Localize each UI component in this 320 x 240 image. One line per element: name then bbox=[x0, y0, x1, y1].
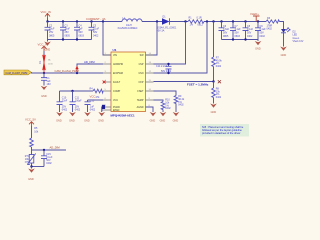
ground GND (C1) bbox=[41, 86, 48, 98]
svg-text:GND: GND bbox=[255, 48, 261, 51]
svg-text:0402: 0402 bbox=[90, 108, 96, 111]
svg-text:VIN: VIN bbox=[113, 54, 117, 57]
svg-text:3.3uF: 3.3uF bbox=[223, 28, 230, 31]
ground GND (TEMP) bbox=[160, 112, 167, 122]
svg-text:GND: GND bbox=[45, 49, 51, 52]
capacitor C4 bbox=[74, 22, 84, 40]
power port VCC_IN (top-left) bbox=[41, 10, 51, 21]
svg-text:ADIM/HD: ADIM/HD bbox=[113, 63, 123, 66]
wire EN/PWM net bbox=[32, 71, 104, 74]
ground GND (C10) bbox=[56, 112, 63, 122]
svg-text:1uF: 1uF bbox=[79, 28, 84, 31]
capacitor C13 (VCC decoupling) bbox=[85, 100, 96, 113]
svg-text:U1: U1 bbox=[113, 48, 117, 52]
svg-text:AGND: AGND bbox=[137, 106, 144, 109]
svg-text:10uF: 10uF bbox=[65, 28, 71, 31]
wire VIN drop bbox=[103, 22, 111, 56]
svg-text:GND: GND bbox=[160, 119, 166, 122]
pin 9 TEMP bbox=[137, 98, 154, 102]
svg-text:GND: GND bbox=[56, 119, 62, 122]
wire OVP pin to divider bbox=[154, 81, 214, 83]
svg-text:GND: GND bbox=[98, 119, 104, 122]
svg-text:FAULT: FAULT bbox=[113, 81, 121, 84]
thermistor RT1 (NTC) bbox=[25, 150, 36, 167]
svg-text:CAM_FLASH_PWM: CAM_FLASH_PWM bbox=[55, 69, 80, 73]
svg-text:22nF: 22nF bbox=[62, 100, 68, 103]
svg-text:CAM_FLASH_PWM: CAM_FLASH_PWM bbox=[5, 72, 27, 75]
pin 5 COMP bbox=[103, 89, 121, 93]
resistor R7 (OVP top divider) bbox=[212, 22, 223, 82]
capacitor C6 bbox=[219, 22, 230, 40]
ground GND (PGND) bbox=[98, 112, 105, 122]
fuse F1 bbox=[40, 55, 54, 73]
capacitor C1 (input filter) bbox=[41, 73, 51, 86]
svg-text:VCC_5V: VCC_5V bbox=[25, 118, 36, 122]
LED D2 bbox=[281, 28, 304, 43]
wire D1 cathode to R1 bbox=[170, 21, 189, 23]
ground GND (LED) bbox=[280, 47, 287, 57]
wire VCC pin net bbox=[88, 99, 104, 101]
svg-text:0402: 0402 bbox=[62, 108, 68, 111]
capacitor C7 bbox=[230, 22, 241, 40]
wire COMP net bbox=[60, 90, 94, 92]
svg-text:EN/PWM: EN/PWM bbox=[113, 72, 123, 75]
svg-text:FSET = 1.2MHz: FSET = 1.2MHz bbox=[187, 83, 209, 87]
svg-text:AD_DIM: AD_DIM bbox=[50, 146, 61, 150]
svg-text:CSP: CSP bbox=[139, 63, 144, 66]
resistor R10 (TEMP) bbox=[154, 99, 172, 112]
wire SW vertical bbox=[146, 22, 158, 56]
node SW junction bbox=[156, 20, 158, 22]
svg-text:CSN: CSN bbox=[138, 72, 143, 75]
capacitor C15 bbox=[41, 150, 53, 167]
svg-text:GND: GND bbox=[173, 119, 179, 122]
ground GND (output caps) bbox=[255, 40, 262, 51]
svg-text:CURRENT - 3A: CURRENT - 3A bbox=[86, 17, 106, 21]
pin 3 EN/PWM bbox=[103, 71, 123, 75]
port CAM_FLASH_PWM (sheet entry) bbox=[4, 70, 32, 75]
pin 7 PGND bbox=[103, 105, 120, 109]
svg-text:GND: GND bbox=[28, 178, 34, 181]
wire top input rail bbox=[48, 21, 123, 23]
capacitor C9 bbox=[255, 22, 266, 40]
resistor R3 (LED series) bbox=[266, 17, 280, 31]
resistor R4 (comp) bbox=[90, 87, 104, 99]
capacitor C10 (comp series) bbox=[57, 91, 68, 112]
svg-text:0402: 0402 bbox=[75, 108, 81, 111]
svg-text:FSET: FSET bbox=[137, 90, 144, 93]
net stub AD_DIM with red arrow bbox=[75, 64, 103, 73]
svg-text:0.1uF: 0.1uF bbox=[260, 28, 267, 31]
svg-text:0.1uF: 0.1uF bbox=[247, 28, 254, 31]
svg-text:10uF: 10uF bbox=[49, 28, 55, 31]
power port VCC (bottom-left) bbox=[25, 118, 36, 138]
wire R3 to LED bbox=[280, 22, 284, 30]
svg-text:MPQ4425M-AEC1: MPQ4425M-AEC1 bbox=[111, 113, 135, 117]
no-connect cross FAULT pin bbox=[103, 81, 106, 84]
wire input cap bottom rail bbox=[48, 39, 92, 41]
resistor R9 (FSET) bbox=[154, 91, 185, 112]
wire L1 to D1 bbox=[142, 21, 162, 23]
svg-text:GND: GND bbox=[281, 54, 287, 57]
svg-text:100pF: 100pF bbox=[75, 100, 82, 103]
svg-text:GND: GND bbox=[69, 119, 75, 122]
no-ERC cross on OVP node bbox=[218, 80, 221, 83]
capacitor C11 (comp parallel) bbox=[70, 91, 83, 112]
pin 2 ADIM bbox=[103, 62, 123, 66]
pin 12 CSN bbox=[138, 71, 153, 75]
wire NTC/C15 bottom rail bbox=[32, 166, 45, 168]
ground GND (input caps) bbox=[44, 40, 51, 52]
ground GND (OVP divider) bbox=[210, 104, 217, 114]
resistor R1 (current sense) bbox=[188, 17, 204, 27]
capacitor C2 bbox=[45, 22, 55, 40]
svg-text:0402: 0402 bbox=[260, 35, 266, 38]
svg-text:0402: 0402 bbox=[247, 35, 253, 38]
svg-text:0805: 0805 bbox=[65, 35, 71, 38]
pin 6 VCC bbox=[103, 98, 118, 102]
svg-text:GND: GND bbox=[41, 95, 47, 98]
ground GND (FSET) bbox=[173, 112, 180, 122]
svg-text:0612: 0612 bbox=[198, 24, 204, 27]
svg-text:0402: 0402 bbox=[216, 96, 222, 99]
svg-text:C14 2.2nF: C14 2.2nF bbox=[156, 65, 168, 68]
svg-text:XAL5030-103MEC: XAL5030-103MEC bbox=[118, 27, 138, 30]
svg-text:0402: 0402 bbox=[267, 28, 273, 31]
svg-text:OVP: OVP bbox=[138, 81, 143, 84]
svg-text:VCC_IN: VCC_IN bbox=[38, 43, 48, 47]
svg-text:1206: 1206 bbox=[48, 63, 54, 65]
wire AGND pin down bbox=[146, 107, 154, 112]
svg-text:0603: 0603 bbox=[235, 35, 241, 38]
svg-text:NTC: NTC bbox=[25, 161, 30, 164]
pin 13 CSP bbox=[139, 62, 154, 66]
capacitor C14 (sense filter) bbox=[156, 63, 172, 74]
ground GND (AGND) bbox=[150, 112, 157, 122]
svg-text:VLED+: VLED+ bbox=[250, 12, 259, 16]
power port VLED+ bbox=[250, 12, 260, 22]
resistor R5 (pull-up) bbox=[30, 127, 39, 150]
svg-text:GND: GND bbox=[211, 111, 217, 114]
wire LED to ground bbox=[283, 33, 285, 47]
ground GND (C13) bbox=[84, 112, 91, 122]
svg-text:provided in datasheet of the d: provided in datasheet of the driver bbox=[202, 131, 241, 135]
svg-text:0402: 0402 bbox=[165, 107, 171, 110]
svg-text:GND: GND bbox=[150, 119, 156, 122]
svg-text:Vfwd 2.0V: Vfwd 2.0V bbox=[293, 40, 304, 43]
wire ADIM branch bbox=[32, 149, 67, 151]
wire CSP sense bbox=[154, 22, 186, 65]
note box bbox=[200, 124, 249, 137]
pin 11 OVP bbox=[138, 80, 153, 84]
svg-text:16V: 16V bbox=[47, 83, 52, 86]
svg-text:0.1R: 0.1R bbox=[197, 17, 202, 20]
svg-text:VCC_IN: VCC_IN bbox=[41, 10, 51, 14]
svg-text:VCC: VCC bbox=[113, 99, 118, 102]
pin 17 EPAD bbox=[103, 109, 120, 112]
svg-text:0603: 0603 bbox=[79, 35, 85, 38]
inductor L1 bbox=[118, 17, 143, 30]
svg-text:VCC: VCC bbox=[90, 95, 96, 99]
svg-text:0402: 0402 bbox=[216, 65, 222, 68]
capacitor C3 bbox=[60, 22, 70, 40]
svg-text:0402: 0402 bbox=[178, 104, 184, 107]
pin 4 FAULT bbox=[103, 80, 121, 84]
svg-text:C13: C13 bbox=[90, 100, 95, 103]
svg-text:TEMP: TEMP bbox=[137, 99, 144, 102]
svg-text:EPAD: EPAD bbox=[113, 109, 120, 112]
wire R1 to output area bbox=[204, 21, 266, 23]
svg-text:0805: 0805 bbox=[223, 35, 229, 38]
capacitor C8 bbox=[243, 22, 254, 40]
node junctions on input rail bbox=[46, 20, 104, 22]
svg-text:40V 3A: 40V 3A bbox=[157, 29, 165, 32]
svg-text:AD_DIM: AD_DIM bbox=[84, 60, 95, 64]
wire PGND/EPAD to ground bbox=[102, 105, 105, 112]
resistor R8 (OVP bottom divider) bbox=[212, 82, 222, 104]
svg-text:0402: 0402 bbox=[93, 35, 99, 38]
pin 10 FSET bbox=[137, 89, 153, 93]
diode D1 bbox=[157, 16, 177, 33]
pin 14 SW bbox=[140, 53, 154, 57]
svg-text:0.1uF: 0.1uF bbox=[93, 28, 100, 31]
wire CSN sense bbox=[154, 22, 208, 74]
svg-text:GND: GND bbox=[84, 119, 90, 122]
wire output cap bottom rail bbox=[222, 39, 259, 41]
ground GND (C11) bbox=[69, 112, 76, 122]
svg-text:50V 0402: 50V 0402 bbox=[161, 70, 172, 73]
svg-text:COMP: COMP bbox=[113, 90, 121, 93]
pin 8 AGND bbox=[137, 105, 154, 109]
svg-text:0805: 0805 bbox=[49, 35, 55, 38]
op-amp/driver IC U1 body bbox=[111, 48, 146, 117]
svg-text:0402: 0402 bbox=[46, 162, 52, 165]
power port VCC_IN (above fuse) bbox=[38, 43, 48, 55]
ground GND (bottom-left) bbox=[28, 167, 35, 181]
pin 1 VIN bbox=[103, 53, 117, 57]
capacitor C5 bbox=[89, 22, 100, 40]
svg-text:1.1uF: 1.1uF bbox=[235, 28, 242, 31]
